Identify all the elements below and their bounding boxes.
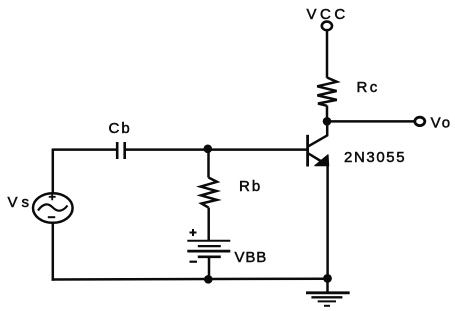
transistor Q1 2N3055 collector lead [309,121,328,146]
source Vs body [33,193,73,223]
source Vs minus mark [48,216,55,218]
battery VBB plate 3 long [187,250,230,253]
terminal VCC [322,22,332,31]
transistor Q1 emitter arrow [315,155,329,166]
wire capacitor to base [126,148,308,151]
transistor Q1 emitter lead [309,154,325,163]
svg-text:Vo: Vo [431,114,453,131]
wire Rc to collector node [326,106,329,122]
transistor Q1 base bar [306,135,309,167]
wire Rb to battery [207,208,210,241]
battery VBB plate 1 long [187,240,230,242]
ground bar 4 [324,305,330,307]
wire node to Rb [207,149,210,178]
ground bar 3 [318,300,336,302]
resistor Rb [201,178,217,208]
capacitor Cb right plate [123,142,126,159]
battery minus mark [190,261,198,263]
node base junction [204,145,213,154]
wire VCC terminal to Rc [326,30,329,78]
svg-text:Rc: Rc [357,79,380,96]
wire top: source to capacitor [53,148,117,151]
wire collector node to Vo [327,120,415,123]
svg-text:Rb: Rb [239,178,262,195]
ground bar 2 [311,296,342,298]
capacitor Cb left plate [116,142,119,159]
wire left vertical lower [52,223,55,281]
node bottom junction [204,275,213,284]
ground stub [326,279,329,293]
svg-text:2N3055: 2N3055 [344,149,406,166]
node ground junction [323,274,332,283]
wire battery to bottom [208,257,211,280]
terminal Vo [415,117,425,125]
battery VBB plate 4 short [198,255,221,258]
ground bar 1 [306,291,350,294]
svg-text:VCC: VCC [307,6,349,23]
wire bottom [52,277,328,280]
battery plus mark [190,229,197,236]
resistor Rc [317,78,337,106]
source Vs sine wave [38,204,68,210]
svg-text:VBB: VBB [235,249,268,266]
transistor emitter wire down [326,165,329,279]
svg-text:Vs: Vs [8,194,34,211]
wire left vertical upper [52,149,55,194]
source Vs plus mark [49,193,56,200]
battery VBB plate 2 short [198,245,221,247]
node collector junction [323,117,332,126]
svg-text:Cb: Cb [109,120,132,137]
